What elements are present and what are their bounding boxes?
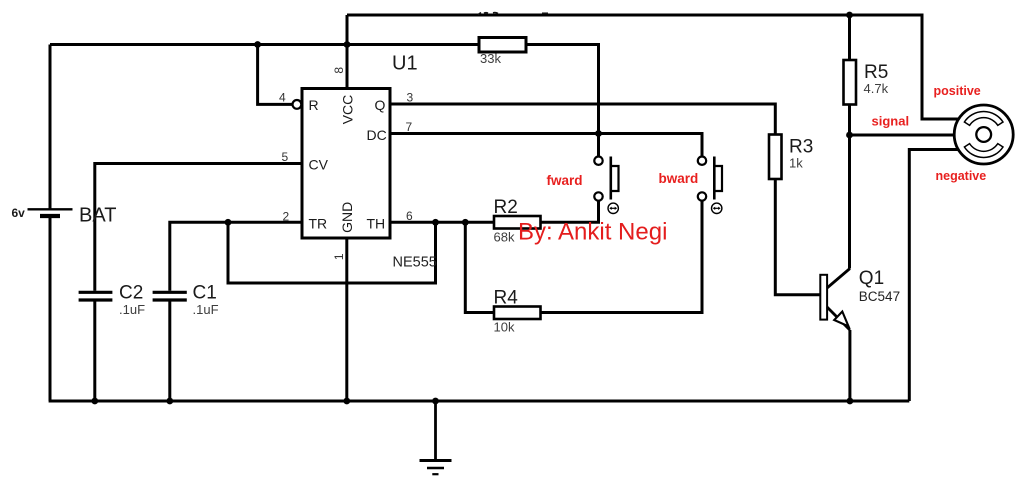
svg-text:7: 7 [406,120,413,134]
resistor 33k body [479,38,526,53]
node VCC-pin4 junction [254,41,261,48]
capacitor C1 plates [153,292,187,300]
svg-text:TH: TH [367,215,386,231]
svg-text:BAT: BAT [79,205,116,227]
wire top rail from pin8 to motor positive drop [347,15,959,119]
wire R5 top [848,15,851,60]
wire TH drop to R4 [465,222,494,312]
wire motor negative [909,150,958,402]
wire R5 bottom to signal junction and collector [848,105,851,269]
wire fward top terminal to DC junction [597,134,600,157]
resistor R4 body [494,307,541,320]
transistor Q1 emitter diagonal [827,307,850,330]
node top rail R5 junction [846,12,853,19]
pushbutton fward plunger bracket [611,166,619,191]
pushbutton bward interaction icon [712,203,722,213]
svg-text:33k: 33k [480,51,501,66]
wire CV pin5 to C2 [95,164,302,291]
svg-text:By: Ankit Negi: By: Ankit Negi [518,219,667,246]
pushbutton fward terminal top [594,157,602,165]
svg-text:2: 2 [283,210,290,224]
pushbutton bward actuator bar [713,157,716,200]
node DC junction [595,130,602,137]
battery BAT plate negative [40,214,60,218]
motor body outer circle [954,105,1013,164]
node TH junction left [432,219,439,226]
svg-text:1k: 1k [789,156,803,171]
svg-text:negative: negative [936,169,987,183]
capacitor C2 plates [79,292,113,300]
svg-text:R5: R5 [864,62,888,83]
node ground C2 junction [91,398,98,405]
pushbutton fward terminal bottom [594,192,602,200]
wire ground bottom rail [49,400,910,403]
svg-text:4: 4 [279,90,286,104]
wire VCC rail from battery to pin8 [50,43,347,46]
svg-text:.1uF: .1uF [119,302,145,317]
wire signal junction to motor [850,134,956,137]
node ground pin1 junction [343,398,350,405]
svg-text:fward: fward [547,173,583,188]
U1 reset bubble pin4 [293,100,302,109]
svg-text:DC: DC [367,127,387,143]
wire GND pin1 vertical [345,238,348,401]
node TR junction [225,219,232,226]
wire battery negative vertical [49,216,52,401]
svg-text:Q: Q [375,97,386,113]
wire TH pin6 to R2 [390,221,494,224]
pushbutton fward actuator bar [609,157,612,200]
svg-text:U1: U1 [392,53,418,75]
wire pin8 vertical [346,15,349,89]
svg-text:1: 1 [332,253,346,260]
ground symbol [420,401,452,474]
wire R3 to Q1 base [775,179,820,295]
transistor Q1 collector diagonal [827,269,850,289]
wire battery positive vertical [49,45,52,210]
wire emitter to ground rail [848,330,851,401]
transistor Q1 emitter arrow [834,312,848,327]
node VCC-pin8 junction [344,41,351,48]
node signal junction [846,132,853,139]
wire DC pin7 to bward top terminal [390,134,702,157]
svg-text:.1uF: .1uF [193,302,219,317]
node TH junction right [462,219,469,226]
svg-text:6v: 6v [12,206,26,220]
wire reset pin4 from VCC rail [258,45,293,105]
motor commutator bottom arc [964,144,1003,158]
svg-text:R3: R3 [789,137,813,158]
wire TR pin2 to C1 [170,222,302,290]
pushbutton bward terminal bottom [698,192,706,200]
svg-text:68k: 68k [494,230,515,245]
svg-text:VCC: VCC [340,95,356,125]
node ground symbol junction [432,398,439,405]
pushbutton bward plunger bracket [715,166,723,191]
transistor Q1 base bar [820,275,827,320]
resistor R3 body [769,135,782,180]
svg-text:NE555: NE555 [393,255,437,271]
svg-text:5: 5 [282,150,289,164]
svg-text:BC547: BC547 [859,289,900,304]
svg-text:4.7k: 4.7k [864,81,889,96]
svg-text:C1: C1 [193,283,217,304]
svg-text:signal: signal [872,114,910,129]
svg-text:bward: bward [659,171,699,186]
node ground emitter junction [847,398,854,405]
pushbutton bward terminal top [698,157,706,165]
svg-text:GND: GND [339,202,355,233]
wire C1 bottom to ground rail [168,302,171,402]
svg-text:Q1: Q1 [859,268,884,289]
motor shaft inner circle [976,127,991,142]
svg-text:R4: R4 [494,288,519,309]
svg-text:R: R [309,97,319,113]
battery BAT plate positive [28,208,73,210]
wire bward bottom terminal to R4 [541,201,703,313]
resistor R5 body [844,60,857,105]
svg-text:TR: TR [309,215,328,231]
pushbutton fward interaction icon [608,203,618,213]
svg-text:positive: positive [934,84,981,98]
wire TR-TH loop [228,222,436,283]
svg-text:CV: CV [309,157,329,173]
wire Q pin3 to R3 [390,104,775,135]
wire C2 bottom to ground rail [93,302,96,402]
erased label remnant marks on top wire [478,13,548,15]
node ground C1 junction [166,398,173,405]
svg-text:C2: C2 [119,283,143,304]
svg-text:6: 6 [406,209,413,223]
op-amp U1 NE555 body [302,89,390,239]
svg-text:3: 3 [407,91,414,105]
svg-text:R2: R2 [494,197,518,218]
motor commutator top arc [964,112,1003,126]
wire VCC rail to 33k [347,43,479,46]
wire R2 to fward bottom terminal [541,201,599,222]
wire 33k to DC junction drop [526,45,599,134]
resistor R2 body [494,216,541,229]
svg-text:8: 8 [332,67,346,74]
svg-text:10k: 10k [494,320,515,335]
